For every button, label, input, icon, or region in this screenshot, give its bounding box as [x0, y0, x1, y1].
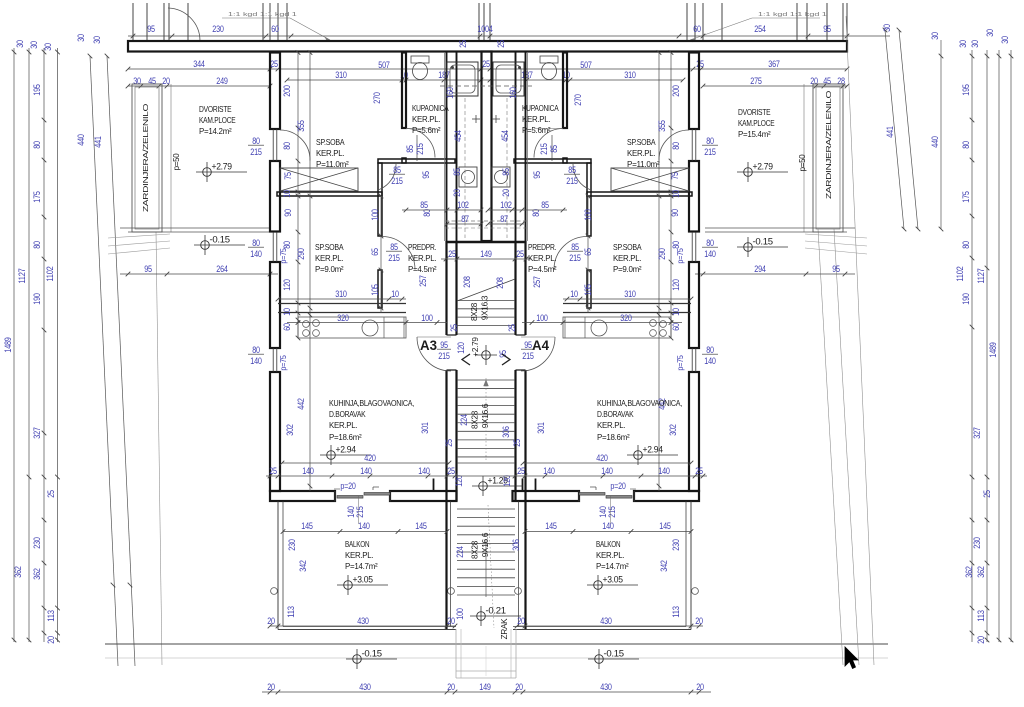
svg-text:85: 85 — [420, 200, 428, 210]
svg-text:10: 10 — [671, 190, 681, 198]
svg-text:-0.15: -0.15 — [362, 649, 383, 659]
svg-text:215: 215 — [566, 176, 577, 186]
svg-text:440: 440 — [930, 136, 940, 147]
svg-text:1489: 1489 — [3, 337, 13, 352]
svg-text:362: 362 — [976, 566, 986, 577]
svg-text:215: 215 — [355, 506, 365, 517]
kitchen counter — [563, 317, 671, 338]
svg-text:+2.94: +2.94 — [336, 445, 357, 455]
svg-text:-0.21: -0.21 — [486, 606, 507, 616]
svg-text:-0.15: -0.15 — [604, 649, 625, 659]
bathroom west wall — [563, 53, 567, 129]
lower flight walk line — [488, 505, 494, 628]
svg-text:8X28: 8X28 — [470, 302, 479, 321]
svg-text:430: 430 — [600, 682, 611, 692]
svg-text:KUPAONICA: KUPAONICA — [522, 103, 559, 113]
svg-text:30: 30 — [882, 24, 892, 32]
bottom -0.15 markers — [353, 655, 362, 664]
+1.29 marker — [479, 482, 488, 491]
svg-text:215: 215 — [388, 253, 399, 263]
svg-text:+2.79: +2.79 — [753, 162, 774, 172]
svg-text:D.BORAVAK: D.BORAVAK — [329, 409, 366, 419]
svg-text:p=75: p=75 — [676, 248, 685, 264]
svg-text:1:1 kgd 1:1 kgd 1: 1:1 kgd 1:1 kgd 1 — [228, 12, 297, 18]
svg-text:20: 20 — [515, 682, 523, 692]
svg-text:P=4.5m²: P=4.5m² — [408, 264, 437, 274]
svg-text:p=50: p=50 — [172, 153, 181, 171]
svg-text:20: 20 — [976, 636, 986, 644]
svg-text:25: 25 — [458, 40, 468, 48]
svg-text:25: 25 — [447, 466, 455, 476]
terrace bottom dim right (294 95) — [695, 273, 855, 275]
svg-text:257: 257 — [418, 275, 428, 286]
svg-text:175: 175 — [961, 191, 971, 202]
svg-text:D.BORAVAK: D.BORAVAK — [597, 409, 634, 419]
right margin dim chain 2 — [986, 50, 988, 642]
bathroom west wall — [402, 53, 406, 129]
svg-text:420: 420 — [596, 453, 607, 463]
svg-text:160: 160 — [445, 87, 455, 98]
main top wall — [128, 41, 847, 52]
property boundary lines right — [818, 229, 843, 665]
svg-text:20: 20 — [267, 682, 275, 692]
balcony sliding door glyph — [334, 491, 336, 502]
svg-text:140: 140 — [658, 466, 669, 476]
window/door glyphs in west wall — [695, 129, 697, 161]
window/door glyphs in west wall — [272, 129, 274, 161]
svg-text:140: 140 — [704, 356, 715, 366]
svg-text:KER.PL.: KER.PL. — [412, 114, 440, 124]
terrace planter strip — [813, 84, 843, 232]
svg-text:270: 270 — [573, 94, 583, 105]
svg-text:20: 20 — [695, 616, 703, 626]
svg-text:P=5.6m²: P=5.6m² — [412, 125, 441, 135]
left unit interior vertical chain A — [297, 52, 299, 338]
svg-text:20: 20 — [447, 682, 455, 692]
stair west wall — [445, 241, 447, 335]
balcony dims right — [525, 531, 691, 533]
svg-text:95: 95 — [524, 340, 532, 350]
svg-text:1004: 1004 — [477, 24, 492, 34]
svg-text:25: 25 — [448, 249, 456, 259]
svg-text:p=75: p=75 — [279, 248, 288, 264]
exterior west wall — [270, 53, 280, 130]
left margin dim chain 1 — [13, 48, 15, 642]
left margin dim chain 2 — [28, 48, 30, 642]
svg-text:SP.SOBA: SP.SOBA — [316, 137, 345, 147]
svg-text:8X28: 8X28 — [471, 540, 480, 559]
svg-text:195: 195 — [961, 84, 971, 95]
svg-text:20: 20 — [696, 682, 704, 692]
svg-text:200: 200 — [671, 85, 681, 96]
svg-text:230: 230 — [671, 539, 681, 550]
center verticals above top wall — [478, 3, 480, 42]
balcony railing post circles — [692, 588, 699, 595]
svg-text:30: 30 — [970, 40, 980, 48]
bathroom south wall — [514, 159, 591, 163]
svg-text:362: 362 — [13, 566, 23, 577]
mid flight treads — [457, 379, 515, 381]
svg-text:355: 355 — [657, 120, 667, 131]
svg-text:507: 507 — [580, 60, 591, 70]
svg-text:454: 454 — [453, 130, 463, 141]
svg-text:120: 120 — [456, 342, 466, 353]
svg-text:PREDPR.: PREDPR. — [528, 242, 556, 252]
terrace inner edge lines — [803, 84, 805, 232]
mouse cursor — [845, 647, 858, 669]
svg-text:BALKON: BALKON — [345, 539, 369, 549]
door arc west wall terrace door — [280, 130, 310, 161]
svg-text:80: 80 — [282, 241, 292, 249]
svg-text:87: 87 — [461, 214, 469, 224]
svg-text:KAM.PLOCE: KAM.PLOCE — [738, 118, 775, 128]
svg-text:P=15.4m²: P=15.4m² — [738, 129, 771, 139]
chase dashed verticals — [464, 98, 466, 238]
jamb at kitchen-stair opening — [535, 479, 537, 492]
svg-text:P=14.7m²: P=14.7m² — [345, 561, 378, 571]
svg-text:327: 327 — [972, 427, 982, 438]
dimension row 344/25/507/25/507/25/367 — [128, 68, 847, 70]
svg-text:215: 215 — [569, 253, 580, 263]
svg-text:149: 149 — [479, 682, 490, 692]
svg-text:25: 25 — [516, 249, 524, 259]
svg-text:230: 230 — [212, 24, 223, 34]
svg-text:85: 85 — [393, 165, 401, 175]
svg-text:p=75: p=75 — [676, 355, 685, 371]
south wall of building — [634, 491, 699, 501]
svg-text:113: 113 — [671, 606, 681, 618]
svg-text:KER.PL.: KER.PL. — [408, 253, 436, 263]
svg-text:BALKON: BALKON — [596, 539, 620, 549]
svg-text:80: 80 — [252, 345, 260, 355]
svg-text:113: 113 — [976, 610, 986, 622]
svg-text:224: 224 — [459, 414, 469, 425]
svg-text:290: 290 — [657, 248, 667, 259]
svg-text:430: 430 — [357, 616, 368, 626]
svg-text:30: 30 — [985, 29, 995, 37]
hall door arc (predpr) — [382, 237, 415, 270]
svg-text:310: 310 — [624, 70, 635, 80]
svg-text:60: 60 — [671, 323, 681, 331]
svg-text:P=4.5m²: P=4.5m² — [528, 264, 557, 274]
svg-text:9X16.6: 9X16.6 — [481, 403, 490, 428]
svg-text:257: 257 — [532, 276, 542, 287]
svg-text:A3: A3 — [420, 338, 437, 353]
svg-text:P=14.7m²: P=14.7m² — [596, 561, 629, 571]
hall west wall lower — [378, 270, 382, 308]
svg-text:+2.79: +2.79 — [471, 337, 480, 357]
balcony rail near stair — [518, 502, 520, 627]
svg-text:P=11.0m²: P=11.0m² — [627, 159, 660, 169]
svg-text:KER.PL.: KER.PL. — [316, 148, 344, 158]
svg-text:20: 20 — [452, 189, 462, 197]
svg-text:P=14.2m²: P=14.2m² — [199, 126, 232, 136]
svg-text:25: 25 — [444, 439, 454, 447]
kitchen north wall (thin) — [278, 303, 406, 305]
svg-text:302: 302 — [285, 424, 295, 435]
svg-text:249: 249 — [216, 76, 227, 86]
balcony sliding door glyph — [633, 491, 635, 502]
svg-text:145: 145 — [545, 521, 556, 531]
svg-text:25: 25 — [982, 490, 992, 498]
balcony outline — [690, 502, 692, 630]
svg-text:102: 102 — [457, 200, 468, 210]
svg-text:10: 10 — [282, 190, 292, 198]
svg-text:105: 105 — [370, 284, 380, 295]
svg-text:P=18.6m²: P=18.6m² — [597, 432, 630, 442]
hall west wall upper — [587, 163, 591, 236]
svg-text:301: 301 — [536, 422, 546, 433]
svg-text:290: 290 — [296, 248, 306, 259]
svg-text:25: 25 — [695, 466, 703, 476]
svg-text:507: 507 — [378, 60, 389, 70]
svg-text:87: 87 — [500, 214, 508, 224]
slanted property dim lines left (440/441) — [90, 56, 118, 666]
svg-text:60: 60 — [282, 323, 292, 331]
svg-text:441: 441 — [93, 136, 103, 147]
svg-text:187: 187 — [521, 70, 532, 80]
svg-text:187: 187 — [438, 70, 449, 80]
left margin dim chain 4 — [57, 48, 59, 642]
svg-text:1:1 kgd 1:1 kgd 1: 1:1 kgd 1:1 kgd 1 — [758, 12, 827, 18]
left margin dim chain 3 — [43, 48, 45, 642]
balcony railing post circles — [271, 588, 278, 595]
svg-text:25: 25 — [507, 324, 517, 332]
svg-text:60: 60 — [693, 24, 701, 34]
svg-text:KER.PL.: KER.PL. — [315, 253, 343, 263]
stair door arcs — [417, 337, 451, 371]
terrace bottom edge — [120, 227, 270, 229]
svg-text:362: 362 — [964, 566, 974, 577]
svg-text:20: 20 — [501, 189, 511, 197]
svg-text:95: 95 — [421, 171, 431, 179]
svg-text:355: 355 — [296, 120, 306, 131]
svg-text:25: 25 — [512, 439, 522, 447]
stair top wall — [446, 241, 527, 243]
svg-text:95: 95 — [144, 264, 152, 274]
svg-text:30: 30 — [92, 36, 102, 44]
svg-text:80: 80 — [252, 238, 260, 248]
svg-text:30: 30 — [1000, 36, 1010, 44]
dimension row top (95 230 60 1004 60 254 95) — [128, 35, 890, 37]
level marker -0.15 right — [744, 243, 753, 252]
svg-text:362: 362 — [32, 568, 42, 579]
hall west wall lower — [587, 270, 591, 308]
svg-text:10: 10 — [671, 308, 681, 316]
svg-text:1127: 1127 — [17, 268, 27, 283]
svg-text:SP.SOBA: SP.SOBA — [315, 242, 344, 252]
svg-text:215: 215 — [438, 351, 449, 361]
left hall chain — [380, 196, 382, 313]
svg-text:95: 95 — [440, 340, 448, 350]
terrace planter strip — [132, 84, 162, 232]
svg-text:190: 190 — [961, 293, 971, 304]
svg-text:80: 80 — [252, 136, 260, 146]
svg-text:80: 80 — [282, 142, 292, 150]
svg-text:100: 100 — [536, 313, 547, 323]
svg-text:100: 100 — [455, 608, 465, 619]
svg-text:+3.05: +3.05 — [603, 575, 624, 585]
hall west wall upper — [378, 163, 382, 236]
svg-text:208: 208 — [462, 276, 472, 287]
svg-text:KUHINJA,BLAGOVAONICA,: KUHINJA,BLAGOVAONICA, — [597, 398, 682, 408]
bottom dim row — [262, 691, 711, 693]
svg-text:310: 310 — [335, 289, 346, 299]
svg-text:KER.PL.: KER.PL. — [627, 148, 655, 158]
south wall of building — [270, 491, 335, 501]
svg-text:80: 80 — [961, 241, 971, 249]
svg-text:140: 140 — [602, 521, 613, 531]
svg-text:140: 140 — [418, 466, 429, 476]
svg-text:215: 215 — [415, 143, 425, 154]
svg-text:-0.15: -0.15 — [210, 235, 231, 245]
svg-text:10: 10 — [570, 289, 578, 299]
svg-text:327: 327 — [32, 427, 42, 438]
right margin 440 line — [940, 40, 942, 229]
balcony rail near stair — [450, 502, 452, 627]
svg-text:KUHINJA,BLAGOVAONICA,: KUHINJA,BLAGOVAONICA, — [329, 398, 414, 408]
svg-text:KER.PL.: KER.PL. — [345, 550, 373, 560]
svg-text:441: 441 — [885, 126, 895, 137]
svg-text:85: 85 — [568, 165, 576, 175]
svg-text:190: 190 — [32, 293, 42, 304]
svg-text:270: 270 — [372, 92, 382, 103]
svg-text:ZARDINJERA/ZELENILO: ZARDINJERA/ZELENILO — [824, 90, 833, 199]
svg-text:302: 302 — [668, 424, 678, 435]
building corner verticals above top wall (right) — [686, 3, 688, 42]
svg-text:p=50: p=50 — [798, 154, 807, 172]
svg-text:80: 80 — [706, 136, 714, 146]
svg-text:224: 224 — [455, 546, 465, 557]
level marker -0.15 left — [201, 241, 210, 250]
chase lines right — [515, 52, 517, 241]
svg-text:215: 215 — [704, 147, 715, 157]
svg-text:90: 90 — [283, 209, 293, 217]
left terrace — [108, 84, 270, 254]
hall door arc (predpr) — [554, 237, 587, 270]
svg-text:30: 30 — [43, 43, 53, 51]
plus marks — [472, 118, 480, 120]
svg-text:p=20: p=20 — [610, 481, 625, 491]
svg-text:95: 95 — [147, 24, 155, 34]
terrace bottom edge — [705, 227, 855, 229]
svg-text:215: 215 — [607, 506, 617, 517]
balcony dims left — [283, 531, 447, 533]
right hall chain — [587, 196, 589, 313]
kitchen bottom dims — [282, 462, 449, 464]
svg-text:306: 306 — [511, 539, 521, 550]
svg-text:90: 90 — [670, 209, 680, 217]
svg-text:25: 25 — [269, 466, 277, 476]
svg-text:p=75: p=75 — [279, 355, 288, 371]
svg-text:30: 30 — [76, 34, 86, 42]
left unit walls — [270, 53, 457, 630]
room11 door arc from divider — [573, 164, 591, 190]
svg-text:1102: 1102 — [45, 266, 55, 281]
svg-text:105: 105 — [583, 284, 593, 295]
svg-text:75: 75 — [670, 172, 680, 180]
dimension row 310/10/187 | 187/10/310 — [287, 79, 683, 81]
svg-text:100: 100 — [421, 313, 432, 323]
svg-text:+2.94: +2.94 — [643, 445, 664, 455]
svg-text:230: 230 — [287, 539, 297, 550]
svg-text:30: 30 — [29, 41, 39, 49]
fence posts top-left — [132, 3, 134, 42]
svg-text:KER.PL.: KER.PL. — [522, 114, 550, 124]
svg-text:275: 275 — [750, 76, 761, 86]
svg-text:215: 215 — [250, 147, 261, 157]
bathroom door arc — [534, 129, 563, 158]
svg-text:10: 10 — [391, 289, 399, 299]
svg-text:KER.PL.: KER.PL. — [329, 420, 357, 430]
stair east wall — [514, 241, 516, 335]
wardrobe with X — [611, 168, 689, 191]
svg-text:145: 145 — [301, 521, 312, 531]
svg-text:215: 215 — [539, 143, 549, 154]
svg-text:145: 145 — [659, 521, 670, 531]
svg-text:85: 85 — [405, 145, 415, 153]
svg-text:301: 301 — [420, 422, 430, 433]
svg-text:454: 454 — [500, 130, 510, 141]
washer left — [459, 167, 477, 187]
svg-text:KER.PL.: KER.PL. — [597, 420, 625, 430]
svg-text:80: 80 — [671, 142, 681, 150]
svg-text:95: 95 — [532, 171, 542, 179]
right margin slanted property lines — [885, 30, 904, 229]
gate swing arc top-left — [168, 8, 200, 41]
svg-text:195: 195 — [32, 84, 42, 95]
svg-text:65: 65 — [370, 248, 380, 256]
balcony outline — [277, 502, 279, 630]
shower right — [493, 62, 524, 96]
svg-text:367: 367 — [768, 59, 779, 69]
svg-text:1127: 1127 — [976, 268, 986, 283]
toilet left — [411, 56, 429, 63]
svg-text:85: 85 — [541, 200, 549, 210]
svg-text:10: 10 — [282, 308, 292, 316]
svg-text:85: 85 — [571, 242, 579, 252]
svg-text:1102: 1102 — [955, 266, 965, 281]
svg-text:KER.PL.: KER.PL. — [528, 253, 556, 263]
svg-text:ZRAK: ZRAK — [500, 618, 509, 639]
svg-text:20: 20 — [810, 76, 818, 86]
svg-text:440: 440 — [76, 134, 86, 145]
svg-text:175: 175 — [32, 191, 42, 202]
svg-text:25: 25 — [517, 466, 525, 476]
svg-text:+2.79: +2.79 — [212, 162, 233, 172]
svg-text:65: 65 — [583, 248, 593, 256]
svg-text:80: 80 — [32, 141, 42, 149]
svg-text:20: 20 — [267, 616, 275, 626]
kitchen counter — [298, 317, 406, 338]
room divider wall — [587, 192, 692, 196]
site boundary bottom — [105, 643, 888, 645]
svg-text:145: 145 — [415, 521, 426, 531]
svg-text:215: 215 — [391, 176, 402, 186]
svg-text:1489: 1489 — [988, 342, 998, 357]
svg-text:P=5.6m²: P=5.6m² — [522, 125, 551, 135]
svg-text:140: 140 — [704, 249, 715, 259]
terrace bottom dim left (95 264) — [120, 273, 278, 275]
svg-text:80: 80 — [671, 241, 681, 249]
jamb at kitchen-stair opening — [433, 479, 435, 492]
svg-text:80: 80 — [706, 345, 714, 355]
svg-text:95: 95 — [832, 264, 840, 274]
svg-text:310: 310 — [624, 289, 635, 299]
level marker +2.79 terrace left — [203, 168, 212, 177]
svg-text:8X28: 8X28 — [471, 410, 480, 429]
svg-text:254: 254 — [754, 24, 765, 34]
